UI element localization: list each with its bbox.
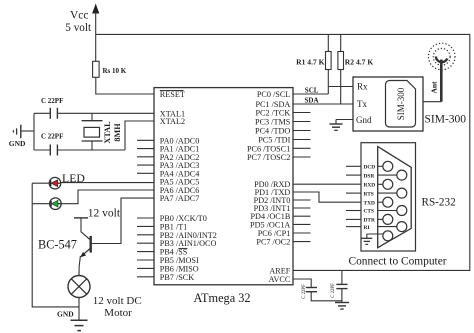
ground SIM Gnd <box>330 120 354 131</box>
svg-text:SIM-300: SIM-300 <box>396 87 406 120</box>
svg-text:PC6 /TOSC1: PC6 /TOSC1 <box>247 144 290 153</box>
svg-text:12 volt: 12 volt <box>88 207 121 219</box>
DB9 stubs <box>346 166 361 226</box>
antenna <box>428 43 455 101</box>
capacitor C2 22PF <box>41 133 63 156</box>
pin stubs right PC2-PC7 <box>293 113 311 158</box>
wire Vcc rail to AREF (top, right edge, bottom) <box>96 34 470 270</box>
svg-text:Rx: Rx <box>357 82 368 92</box>
pins PB0-PB7 labels <box>160 214 217 282</box>
svg-text:Gnd: Gnd <box>356 115 372 125</box>
svg-text:PC7 /TOSC2: PC7 /TOSC2 <box>247 153 290 162</box>
wire R1 to Rx <box>328 86 353 88</box>
svg-text:TXD: TXD <box>364 200 375 206</box>
svg-text:ATmega 32: ATmega 32 <box>194 291 251 305</box>
svg-text:SIM-300: SIM-300 <box>425 113 467 125</box>
svg-text:RXD: RXD <box>364 183 376 189</box>
svg-text:DSR: DSR <box>364 173 375 179</box>
DB9 pin link lines <box>378 166 397 226</box>
resistor Rs 10K <box>93 61 127 77</box>
wire XTAL1 left of C1 <box>34 112 50 114</box>
pins PD0-PD7 labels (right) <box>250 180 291 247</box>
pin RESET (overline) <box>160 90 185 99</box>
IC U1 ATmega 32 body <box>154 88 293 285</box>
wire PA6 to LED D2 <box>61 190 154 204</box>
wire emitter to motor <box>79 256 80 275</box>
wire XTAL1 <box>57 112 154 114</box>
svg-text:C 22PF: C 22PF <box>331 283 336 298</box>
DB9 pins right column <box>397 170 407 232</box>
wire motor to ground <box>78 298 80 321</box>
resistor R2 4.7K <box>338 34 373 104</box>
svg-text:Rs 10 K: Rs 10 K <box>103 67 127 75</box>
power Vcc 5 volt <box>65 4 99 62</box>
svg-text:PC3 /TMS: PC3 /TMS <box>255 118 291 127</box>
transistor Q1 BC-547 <box>80 232 90 257</box>
svg-text:RI: RI <box>364 225 370 231</box>
wire LED D2 left <box>32 203 49 205</box>
svg-text:LED: LED <box>62 171 85 185</box>
DB9 shell <box>378 147 412 248</box>
pin stubs right PD2-PD7 <box>293 200 311 242</box>
connector DB9 outer box <box>361 143 416 251</box>
wire PD0 to RXD <box>293 183 361 185</box>
wire SDA to Tx <box>293 97 353 105</box>
wire left ground rail <box>32 183 79 307</box>
svg-text:GND: GND <box>9 139 26 148</box>
module SIM-300 box <box>353 77 423 131</box>
wire Rs to RESET <box>96 77 154 94</box>
wire LED D1 left <box>32 182 49 184</box>
wire PA5 to LED D1 <box>61 182 154 184</box>
svg-text:CTS: CTS <box>364 209 375 215</box>
svg-text:DCD: DCD <box>364 165 376 171</box>
svg-text:XTAL: XTAL <box>103 121 112 144</box>
DB9 ground <box>361 234 383 244</box>
svg-text:Vcc: Vcc <box>70 10 89 22</box>
svg-text:C 22PF: C 22PF <box>302 284 307 299</box>
pins PC0-PC7 labels (right top) <box>247 90 291 162</box>
svg-text:Motor: Motor <box>104 307 132 319</box>
SIM card icon <box>386 81 416 128</box>
svg-text:SCL: SCL <box>305 87 319 95</box>
pins AREF AVCC labels <box>269 267 291 285</box>
svg-text:DTR: DTR <box>364 218 375 224</box>
svg-text:R1 4.7 K: R1 4.7 K <box>296 57 325 66</box>
ground left GND <box>9 125 34 148</box>
svg-text:GND: GND <box>57 310 74 319</box>
wire SIM to antenna <box>423 101 441 103</box>
svg-text:PB7 /SCK: PB7 /SCK <box>160 273 194 282</box>
svg-text:C 22PF: C 22PF <box>41 97 63 105</box>
wire AVCC <box>293 279 311 287</box>
svg-text:AVCC: AVCC <box>269 275 291 284</box>
svg-text:PC2 /TCK: PC2 /TCK <box>255 109 290 118</box>
pin stubs left PB0-PB7 <box>137 218 154 277</box>
pin stubs left PA0-PA4 <box>137 140 154 173</box>
svg-text:R2 4.7 K: R2 4.7 K <box>345 57 374 66</box>
svg-text:PC4 /TDO: PC4 /TDO <box>255 127 290 136</box>
svg-text:SDA: SDA <box>305 97 319 105</box>
ground motor <box>57 310 88 331</box>
svg-text:RS-232: RS-232 <box>422 196 456 208</box>
svg-text:5 volt: 5 volt <box>65 22 92 34</box>
svg-text:C 22PF: C 22PF <box>41 133 63 141</box>
svg-text:8MH: 8MH <box>113 123 122 142</box>
ground AREF/AVCC <box>335 303 349 310</box>
capacitor C1 22PF <box>41 97 63 119</box>
motor M1 <box>68 276 90 298</box>
capacitor C3 22PF <box>306 288 342 301</box>
svg-text:PC7 /OC2: PC7 /OC2 <box>256 238 290 247</box>
svg-text:BC-547: BC-547 <box>38 237 77 251</box>
svg-text:XTAL2: XTAL2 <box>160 117 185 126</box>
svg-text:RTS: RTS <box>364 191 374 197</box>
LED D2 (green) <box>50 198 62 210</box>
svg-text:PA7 /ADC7: PA7 /ADC7 <box>160 194 200 203</box>
wire C2 right to XTAL2 jog <box>57 149 125 151</box>
svg-text:PC0 /SCL: PC0 /SCL <box>257 90 290 99</box>
wire 12V to collector <box>80 218 82 232</box>
label 12 volt DC Motor <box>93 295 142 319</box>
LED D1 (red) <box>49 177 61 189</box>
svg-text:Tx: Tx <box>357 99 367 109</box>
wire XTAL2 <box>125 121 154 150</box>
pins PA0-PA7 labels <box>160 136 200 203</box>
resistor R1 4.7K <box>296 34 331 94</box>
wire C2 left <box>34 149 50 151</box>
label XTAL 8MH (rotated) <box>103 121 122 144</box>
wire PD1 to TXD <box>293 192 361 202</box>
power 12V bar <box>74 217 88 219</box>
svg-text:Ant: Ant <box>429 81 438 94</box>
wire left xtal rail <box>33 113 35 150</box>
svg-text:RESET: RESET <box>160 90 185 99</box>
capacitor C4 22PF <box>336 270 347 302</box>
wire PA7 to transistor base <box>92 198 155 243</box>
DB9 labels <box>364 165 376 231</box>
crystal X1 <box>82 113 103 150</box>
svg-text:12 volt DC: 12 volt DC <box>93 295 142 307</box>
svg-text:PC5 /TDI: PC5 /TDI <box>258 136 290 145</box>
DB9 pins left column <box>383 161 393 241</box>
wire SCL <box>293 87 328 95</box>
svg-text:Connect to Computer: Connect to Computer <box>349 256 447 268</box>
